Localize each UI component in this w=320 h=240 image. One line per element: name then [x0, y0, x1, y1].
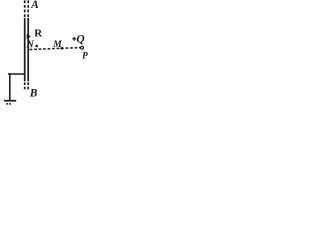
rod AB right side, solid middle segment [27, 18, 29, 81]
ground bar [4, 100, 16, 102]
svg-text:M: M [52, 40, 62, 50]
rod AB left side, dashed lower segment toward B [24, 82, 26, 89]
charge circle at P [81, 46, 84, 49]
svg-text:B: B [29, 87, 38, 99]
wire from rod to ground lead [8, 73, 26, 75]
rod AB right side, dashed lower segment toward B [27, 82, 29, 89]
svg-text:A: A [30, 0, 39, 11]
rod AB right side, dashed upper segment toward A [27, 0, 29, 17]
label + of +Q, horizontal stroke [72, 38, 76, 40]
wire ground lead vertical [9, 73, 11, 100]
svg-text:N: N [26, 39, 35, 50]
node dot right of N [35, 45, 38, 48]
dashed line N-M-P [30, 48, 81, 50]
rod AB left side, solid middle segment [24, 18, 26, 81]
pointer arrowhead for label R on rod [27, 34, 32, 38]
svg-text:R: R [34, 28, 42, 40]
background [0, 0, 91, 109]
ground hatch [6, 103, 12, 105]
svg-text:P: P [82, 51, 88, 61]
svg-text:Q: Q [76, 33, 84, 45]
node dot at M [60, 47, 63, 50]
rod AB left side, dashed upper segment toward A [24, 0, 26, 17]
label + of +Q, vertical stroke [73, 37, 75, 41]
